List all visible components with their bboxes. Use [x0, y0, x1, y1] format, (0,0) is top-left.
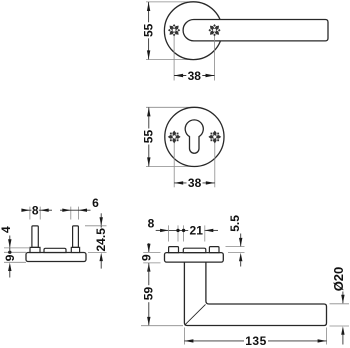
screw left	[165, 21, 183, 39]
leader line left screw	[173, 36, 175, 81]
extension line lever bottom left	[141, 325, 183, 327]
left screw bump	[169, 247, 179, 253]
extension line base bottom	[4, 261, 26, 263]
extension line bottom (55)	[146, 166, 194, 168]
svg-text:24.5: 24.5	[94, 228, 108, 252]
dimension 9	[9, 248, 11, 262]
miter line	[185, 304, 205, 324]
dimension dots	[176, 229, 179, 232]
escutcheon circle	[165, 107, 224, 166]
svg-text:21: 21	[190, 224, 204, 238]
dimension 135	[184, 340, 326, 342]
dimension line 55	[148, 107, 150, 166]
extension line bottom (55)	[146, 59, 192, 61]
rose plate	[165, 253, 224, 263]
right screw bump	[209, 247, 219, 253]
right arrow 21	[205, 229, 218, 231]
svg-text:55: 55	[142, 130, 156, 144]
svg-text:135: 135	[245, 334, 267, 348]
euro profile keyhole	[185, 120, 203, 153]
leader line right screw	[214, 143, 216, 188]
leader line right screw	[214, 36, 216, 81]
base plate	[26, 253, 86, 262]
extension lines for 6	[70, 207, 72, 220]
svg-text:5.5: 5.5	[228, 215, 242, 232]
right post foot	[71, 247, 79, 252]
centre tab	[44, 248, 66, 252]
rose circle	[164, 2, 222, 60]
svg-text:9: 9	[140, 254, 154, 261]
left post foot	[30, 247, 40, 252]
dimension line 55	[148, 2, 150, 59]
svg-text:6: 6	[92, 196, 99, 210]
svg-text:59: 59	[142, 287, 156, 301]
dimension D20	[342, 292, 344, 304]
shared dimension dot	[8, 251, 11, 254]
extension lines 135	[183, 328, 185, 345]
svg-text:55: 55	[141, 23, 155, 37]
svg-text:Ø20: Ø20	[331, 267, 346, 292]
label 38	[186, 70, 202, 81]
extension line top (55)	[146, 1, 193, 3]
label 21	[188, 225, 204, 236]
right post shaft	[73, 226, 79, 248]
screw right	[205, 21, 223, 39]
svg-text:8: 8	[32, 203, 39, 217]
centre tab	[183, 248, 206, 252]
dim line between	[169, 229, 205, 231]
dimension 8 arrow	[156, 229, 169, 231]
left post shaft	[32, 226, 38, 248]
dimension line 38	[174, 182, 215, 184]
extension lines for 8	[29, 207, 31, 220]
svg-text:38: 38	[188, 69, 202, 83]
dimension line 38	[174, 75, 214, 77]
extension lines	[168, 225, 170, 241]
leader line left screw	[173, 143, 175, 188]
svg-text:9: 9	[3, 254, 17, 261]
extension line top (55)	[146, 106, 194, 108]
dimension 24.5	[100, 213, 102, 225]
screw right	[208, 130, 221, 143]
dimension 8 with outside arrows	[22, 209, 30, 211]
dimension 9 plate height	[148, 243, 150, 252]
screw left	[168, 130, 181, 143]
lever bar (stadium shape)	[183, 20, 328, 41]
svg-text:38: 38	[188, 176, 202, 190]
label 55 (rotated)	[143, 129, 154, 145]
dimension 5.5	[240, 234, 242, 247]
extension line base top	[4, 251, 26, 253]
dimension 59	[147, 263, 150, 272]
label 8	[31, 205, 39, 216]
handle L-profile	[184, 262, 326, 325]
dimension 6 with outside arrows	[60, 209, 71, 211]
svg-text:4: 4	[0, 226, 13, 233]
label 38	[187, 177, 203, 188]
extension line foot top	[4, 247, 30, 249]
svg-text:8: 8	[148, 217, 155, 231]
label 55 (rotated)	[143, 22, 154, 38]
